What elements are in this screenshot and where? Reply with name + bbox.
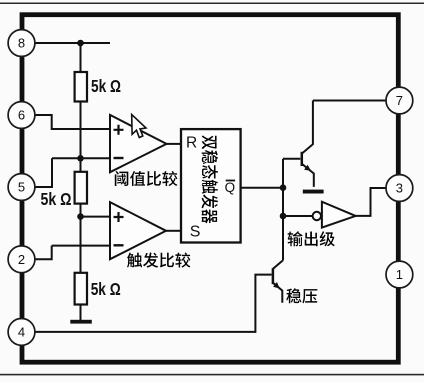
svg-text:7: 7 <box>396 93 403 108</box>
pin 4 <box>8 319 35 346</box>
inverter U4 triangle <box>322 202 356 228</box>
resistor R2 5k <box>75 172 87 204</box>
svg-text:5: 5 <box>18 180 25 195</box>
pin 3 <box>386 175 413 202</box>
ground for Q1 emitter <box>303 190 324 194</box>
node: junction R1-R2 <box>77 155 84 162</box>
wire: pin 8 to Vcc rail stub <box>36 42 111 44</box>
wire: pin 7 <box>313 100 386 102</box>
resistor R1 5k <box>75 72 87 102</box>
wire: pin 6 to comparator U1 + input <box>36 115 111 129</box>
label: output stage <box>288 231 335 246</box>
ground below R3 <box>70 320 92 324</box>
label: regulator <box>286 288 317 303</box>
svg-text:8: 8 <box>18 36 25 51</box>
label: threshold comparator <box>115 171 178 186</box>
svg-text:2: 2 <box>18 252 25 267</box>
wire: bus to inverter input <box>283 215 313 217</box>
pin 2 <box>8 246 35 273</box>
transistor Q1 collector <box>302 101 313 154</box>
node: junction R2-R3 <box>77 213 84 220</box>
svg-text:6: 6 <box>18 108 25 123</box>
op-amp U2 trigger comparator <box>110 202 166 259</box>
bottom separator line <box>0 374 424 376</box>
mouse cursor <box>132 115 146 138</box>
wire: U2 output to S <box>166 230 181 232</box>
pin 8 <box>8 30 35 57</box>
op-amp U1 threshold comparator <box>110 115 167 172</box>
svg-text:5k Ω: 5k Ω <box>91 76 121 96</box>
transistor Q1 emitter with arrow <box>302 164 314 187</box>
transistor Q2 collector from bus <box>273 260 283 269</box>
svg-text:R: R <box>186 134 197 151</box>
svg-text:3: 3 <box>396 181 403 196</box>
label: trigger comparator <box>127 252 190 267</box>
node: bus at inverter <box>280 213 287 220</box>
transistor Q1 base bar <box>301 152 304 166</box>
svg-text:Q: Q <box>225 180 236 195</box>
svg-text:1: 1 <box>396 267 403 282</box>
transistor Q2 base bar <box>272 268 275 284</box>
svg-text:4: 4 <box>18 325 25 340</box>
U1 minus sign <box>114 157 124 159</box>
wire: U1 output to R <box>167 143 182 145</box>
inverter U4 bubble <box>313 212 321 220</box>
svg-text:5k Ω: 5k Ω <box>91 279 121 299</box>
wire: R2/R3 node to comparator U2 + input <box>81 216 111 218</box>
node: bus at Q <box>280 184 287 191</box>
U2 plus sign <box>114 212 124 222</box>
wire: inverter output to pin 3 <box>356 188 386 216</box>
pin 6 <box>8 102 35 129</box>
U2 minus sign <box>114 244 124 246</box>
wire: pin 2 to comparator U2 - input <box>36 246 111 260</box>
transistor Q2 emitter with arrow <box>273 283 282 303</box>
wire: resistor chain vertical <box>80 43 82 320</box>
resistor R3 5k <box>75 273 87 305</box>
wire: vertical bus <box>282 159 284 260</box>
top separator line <box>0 3 424 5</box>
wire: pin 5 riser to R1/R2 node <box>36 158 111 187</box>
pin 5 <box>8 174 35 201</box>
svg-text:S: S <box>190 223 201 240</box>
svg-text:5k Ω: 5k Ω <box>41 189 72 209</box>
wire: pin 4 to Q2 base <box>36 275 272 332</box>
U1 plus sign <box>114 125 124 135</box>
wire: Q output to bus <box>241 187 283 189</box>
node: junction on pin-8 wire <box>77 40 84 47</box>
pin 7 <box>386 87 413 114</box>
pin 1 <box>386 261 413 288</box>
label: bistable flip-flop (vertical) <box>202 135 218 223</box>
wire: bus to Q1 base <box>283 158 300 160</box>
flip-flop block U3 <box>181 129 241 242</box>
